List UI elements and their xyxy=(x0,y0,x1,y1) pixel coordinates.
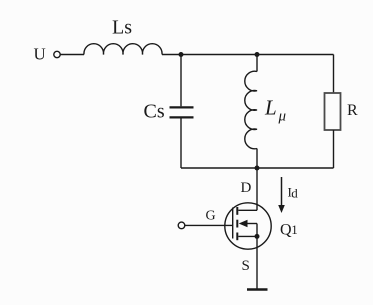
wire Lmu branch top xyxy=(256,55,258,72)
wire drain inside xyxy=(238,209,257,211)
wire R branch bottom xyxy=(333,130,335,168)
ground xyxy=(247,288,268,290)
svg-text:L: L xyxy=(264,96,277,120)
node source junction dot xyxy=(255,234,260,239)
svg-text:D: D xyxy=(241,180,252,196)
svg-text:G: G xyxy=(206,209,216,224)
wire drain xyxy=(256,168,258,210)
svg-text:1: 1 xyxy=(291,222,298,237)
inductor Lmu xyxy=(245,71,257,149)
gate plate xyxy=(232,208,234,239)
wire source inside xyxy=(238,235,257,237)
node junction dot top of Lmu xyxy=(255,52,260,57)
svg-text:Ls: Ls xyxy=(112,17,132,39)
wire top rail xyxy=(162,54,334,56)
svg-text:d: d xyxy=(291,185,298,200)
current arrow Id xyxy=(281,177,283,206)
node junction dot bottom rail xyxy=(255,166,260,171)
body arrow xyxy=(239,220,248,228)
resistor R xyxy=(325,93,341,130)
svg-text:R: R xyxy=(347,102,358,119)
wire body to source xyxy=(256,224,258,237)
wire U terminal to Ls xyxy=(60,54,84,56)
channel segment middle xyxy=(236,220,238,228)
node U terminal xyxy=(54,51,60,57)
svg-text:Q: Q xyxy=(280,222,292,239)
svg-text:U: U xyxy=(34,45,46,64)
wire bottom rail xyxy=(181,167,334,169)
wire source xyxy=(256,236,258,289)
node junction dot top of Cs xyxy=(179,52,184,57)
capacitor Cs xyxy=(170,106,194,108)
inductor Ls xyxy=(84,44,162,55)
wire R branch top xyxy=(333,55,335,94)
svg-text:S: S xyxy=(242,258,250,274)
wire Lmu branch bottom xyxy=(256,149,258,169)
svg-text:μ: μ xyxy=(278,109,287,125)
wire gate xyxy=(185,224,232,226)
channel segment bottom xyxy=(236,233,238,241)
gate terminal xyxy=(178,222,185,229)
wire Cs branch bottom xyxy=(180,119,182,169)
transistor Q1 body circle xyxy=(225,203,271,249)
channel segment top xyxy=(236,207,238,215)
wire Cs branch top xyxy=(180,55,182,107)
svg-text:Cs: Cs xyxy=(144,100,165,122)
